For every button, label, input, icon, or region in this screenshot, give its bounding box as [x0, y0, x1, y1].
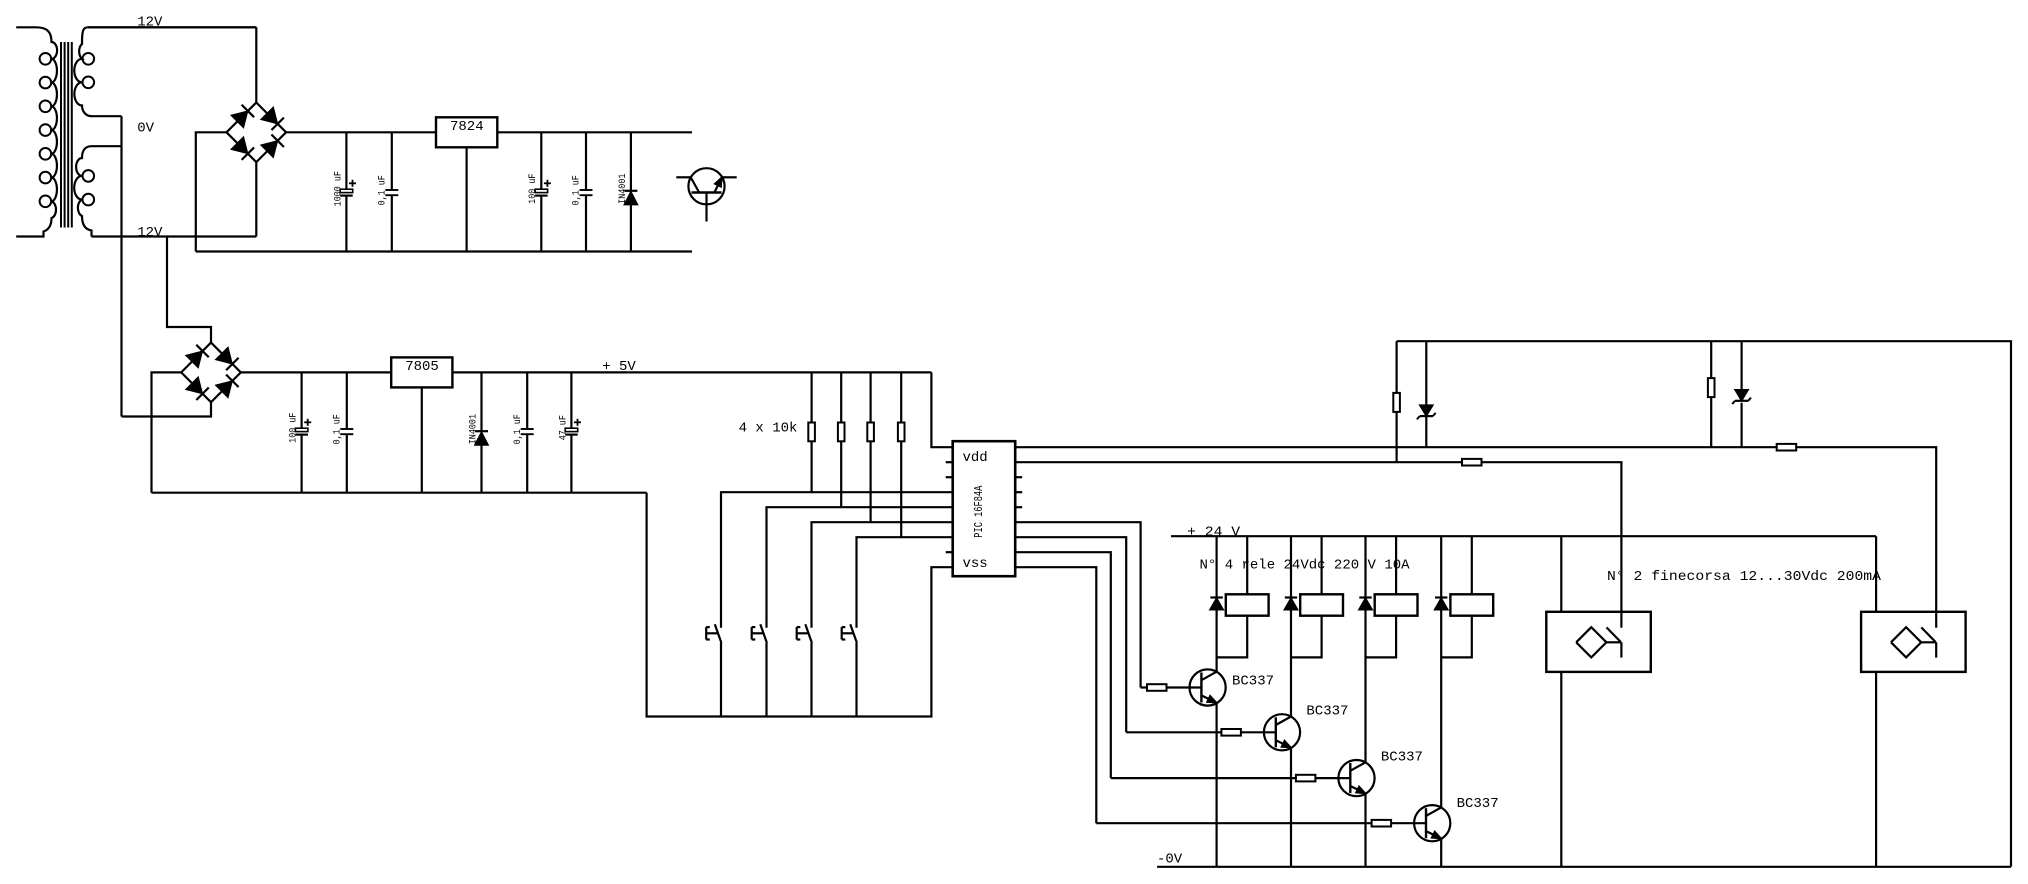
resistor R9 [1372, 820, 1392, 827]
wire [241, 371, 391, 373]
svg-text:12V: 12V [137, 225, 163, 241]
wire [1875, 536, 1877, 612]
wire [152, 492, 647, 494]
diode D4 flyback [1284, 598, 1297, 610]
resistor R8 [1296, 775, 1316, 782]
switch S1 [706, 624, 721, 643]
relay K2 coil [1300, 594, 1343, 615]
resistor R6 [1147, 684, 1167, 691]
pin stub [1015, 476, 1022, 478]
switch S2 [752, 624, 767, 643]
wire [1141, 686, 1202, 688]
bridge rectifier B1 [227, 103, 287, 163]
svg-text:100 uF: 100 uF [527, 174, 539, 204]
diode D5 flyback [1359, 598, 1372, 610]
svg-text:N° 4 rele 24Vdc 220 V 10A: N° 4 rele 24Vdc 220 V 10A [1200, 557, 1411, 573]
svg-text:N° 2 finecorsa 12...30Vdc 200m: N° 2 finecorsa 12...30Vdc 200mA [1607, 569, 1882, 585]
svg-text:0,1 uF: 0,1 uF [332, 414, 344, 444]
pin stub [946, 461, 953, 463]
bridge rectifier B2 [181, 343, 241, 403]
wire [1126, 731, 1276, 733]
transistor Q5 BC337 [1414, 796, 1499, 841]
svg-text:vdd: vdd [963, 450, 988, 466]
wire [647, 493, 953, 717]
wire [1215, 703, 1217, 867]
wire [1364, 536, 1366, 762]
svg-text:BC337: BC337 [1457, 796, 1499, 812]
wire [1364, 793, 1366, 866]
wire [1875, 672, 1877, 867]
node -0V rail [1157, 852, 2011, 868]
svg-text:100 uF: 100 uF [288, 413, 300, 443]
diode D1 1N4001 [617, 132, 638, 251]
wire [120, 116, 122, 416]
wire [767, 507, 953, 628]
transistor Q3 BC337 [1264, 703, 1349, 750]
wire [1015, 567, 1096, 823]
capacitor C3 100uF [527, 132, 551, 251]
svg-text:BC337: BC337 [1381, 749, 1423, 765]
wire [255, 27, 257, 102]
wire [196, 250, 692, 252]
zener diode Z1 [1417, 341, 1436, 447]
wire [1397, 341, 2011, 867]
capacitor C2 0,1uF [377, 132, 399, 251]
wire [92, 235, 257, 237]
wire [1015, 537, 1126, 732]
wire [721, 492, 953, 628]
wire [1290, 536, 1292, 716]
wire [1560, 536, 1562, 612]
wire [255, 162, 257, 236]
wire [810, 643, 812, 717]
regulator U3 7805 [391, 357, 452, 387]
svg-text:7805: 7805 [405, 359, 439, 375]
capacitor C4 0,1uF [571, 132, 593, 251]
relay K1 coil [1226, 594, 1269, 615]
diode D2 1N4001 [467, 372, 488, 492]
wire [1366, 536, 1397, 657]
regulator U2 7824 [436, 117, 497, 147]
svg-text:1000 uF: 1000 uF [332, 171, 344, 206]
transformer T1 [16, 27, 256, 236]
capacitor C8 47uF [557, 372, 581, 492]
svg-text:BC337: BC337 [1306, 703, 1348, 719]
resistor R13 [1708, 341, 1715, 447]
capacitor C1 1000uF [332, 132, 356, 251]
wire [1015, 552, 1111, 778]
switch S3 [797, 624, 812, 643]
svg-text:0,1 uF: 0,1 uF [377, 175, 389, 205]
svg-text:0,1 uF: 0,1 uF [512, 414, 524, 444]
wire [1217, 536, 1248, 657]
wire [1441, 536, 1472, 657]
svg-text:47 uF: 47 uF [557, 415, 569, 440]
resistor R2 10k [808, 372, 815, 492]
diode D6 flyback [1435, 598, 1448, 610]
resistor R10 [1777, 444, 1797, 451]
resistor R11 [1462, 459, 1482, 466]
resistor R5 10k [898, 372, 905, 537]
capacitor C5 100uF [288, 372, 312, 492]
svg-text:4 x 10k: 4 x 10k [739, 421, 798, 437]
svg-text:0V: 0V [137, 121, 154, 137]
wire [88, 26, 256, 28]
wire [1560, 672, 1562, 867]
wire [812, 522, 953, 628]
pin stub [1015, 491, 1022, 493]
resistor R3 10k [838, 372, 845, 507]
svg-text:0,1 uF: 0,1 uF [571, 175, 583, 205]
wire [421, 387, 423, 492]
svg-text:+ 24 V: + 24 V [1187, 524, 1241, 540]
pin stub [946, 551, 953, 553]
pin stub [946, 476, 953, 478]
wire [931, 372, 952, 447]
wire [1290, 748, 1292, 867]
resistor R4 10k [867, 372, 874, 522]
zener diode Z2 [1732, 341, 1751, 447]
wire [1440, 536, 1442, 807]
wire [1015, 462, 1621, 628]
transistor Q1 [676, 168, 736, 221]
transistor Q4 BC337 [1338, 749, 1423, 796]
pin stub [1015, 506, 1022, 508]
diode D3 flyback [1210, 598, 1223, 610]
wire [1291, 536, 1322, 657]
limit switch FC1 [1546, 612, 1651, 672]
wire [1015, 447, 1936, 628]
svg-text:7824: 7824 [450, 119, 484, 135]
wire [765, 643, 767, 717]
wire [720, 643, 722, 717]
resistor R12 [1393, 341, 1400, 462]
capacitor C6 0,1uF [332, 372, 354, 492]
wire [857, 537, 953, 628]
svg-text:+ 5V: + 5V [602, 359, 636, 375]
wire [452, 371, 931, 373]
wire [152, 372, 182, 492]
switch S4 [842, 624, 857, 643]
capacitor C7 0,1uF [512, 372, 534, 492]
wire [1215, 536, 1217, 672]
wire [1096, 822, 1426, 824]
svg-text:vss: vss [963, 556, 988, 572]
wire [1440, 839, 1442, 867]
limit switch FC2 [1861, 612, 1966, 672]
IC U1 PIC 16F84A [953, 441, 1016, 576]
relay K3 coil [1375, 594, 1418, 615]
svg-text:-0V: -0V [1157, 852, 1183, 868]
relay K4 coil [1450, 594, 1493, 615]
wire [855, 643, 857, 717]
wire [122, 402, 212, 416]
resistor R7 [1221, 729, 1241, 736]
svg-text:IN4001: IN4001 [617, 174, 629, 204]
wire [167, 237, 211, 343]
svg-text:IN4001: IN4001 [467, 414, 479, 444]
node + 24 V rail [1171, 524, 1876, 540]
wire [1015, 522, 1140, 687]
wire [1111, 777, 1351, 779]
svg-text:BC337: BC337 [1232, 674, 1274, 690]
wire [466, 147, 468, 251]
wire [286, 131, 692, 133]
wire [196, 132, 227, 251]
svg-text:PIC 16F84A: PIC 16F84A [972, 485, 986, 538]
transistor Q2 BC337 [1190, 669, 1275, 705]
